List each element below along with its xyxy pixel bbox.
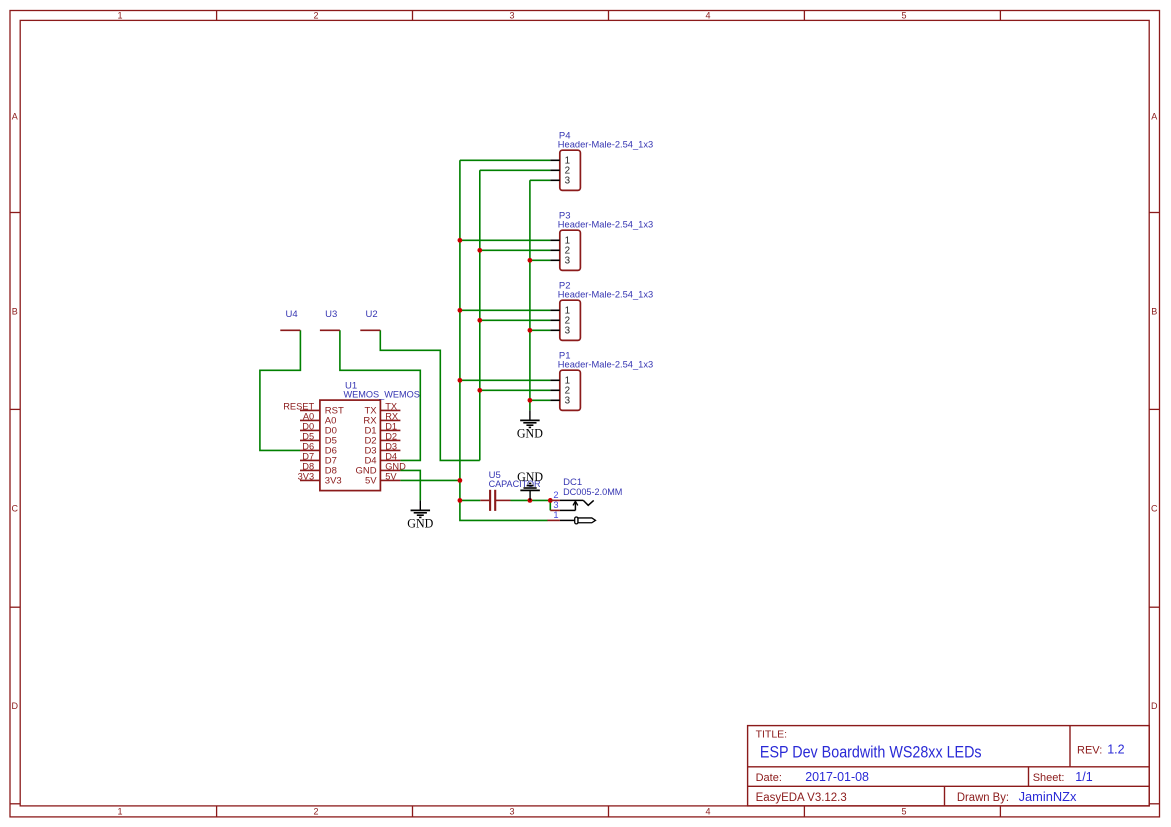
junction dot 12 — [528, 498, 533, 503]
wire DC1 pin3 to pin2 net — [549, 500, 551, 510]
U1 right pin D1 — [364, 426, 400, 437]
junction dot 13 — [548, 498, 553, 503]
connector P3 Header-Male-2.54_1x3 — [550, 230, 580, 270]
wire P4 pin3 to GND rail — [530, 179, 550, 181]
svg-text:Sheet:: Sheet: — [1033, 772, 1065, 784]
svg-text:TX: TX — [385, 401, 397, 411]
svg-text:2: 2 — [313, 807, 318, 817]
DC jack DC1 DC005-2.0MM — [547, 500, 595, 524]
svg-text:D8: D8 — [302, 461, 314, 471]
title block Sheet: 1/1 — [1033, 770, 1093, 784]
svg-text:Header-Male-2.54_1x3: Header-Male-2.54_1x3 — [558, 360, 653, 371]
U1 left pin RST — [300, 406, 344, 417]
IC U1 WEMOS_WEMOS body — [320, 400, 381, 491]
wire U3 to U1 pin D4 — [340, 330, 420, 460]
P4 pin numbers 1 2 3 — [565, 156, 571, 187]
svg-text:Header-Male-2.54_1x3: Header-Male-2.54_1x3 — [558, 220, 653, 231]
wire data rail vertical (header pin2 bus) — [479, 170, 481, 460]
connector P1 Header-Male-2.54_1x3 — [550, 370, 580, 410]
svg-text:3V3: 3V3 — [298, 471, 315, 481]
junction dot 4 — [458, 308, 463, 313]
U1 right pin GND — [355, 466, 400, 477]
component U4 pin stub — [280, 329, 300, 331]
junction dot 10 — [458, 478, 463, 483]
svg-text:Header-Male-2.54_1x3: Header-Male-2.54_1x3 — [558, 290, 653, 301]
svg-text:U2: U2 — [366, 309, 378, 320]
wire capacitor left to 5V rail — [460, 499, 480, 501]
svg-text:1.2: 1.2 — [1107, 742, 1124, 756]
svg-text:1/1: 1/1 — [1075, 770, 1092, 784]
svg-text:TITLE:: TITLE: — [756, 729, 788, 741]
svg-text:D: D — [1151, 701, 1158, 711]
svg-text:D2: D2 — [385, 431, 397, 441]
svg-text:D0: D0 — [302, 421, 314, 431]
svg-text:D3: D3 — [385, 441, 397, 451]
svg-text:WEMOS_WEMOS: WEMOS_WEMOS — [344, 389, 420, 400]
component U2 pin stub — [360, 329, 380, 331]
component U3 pin stub — [320, 329, 340, 331]
svg-text:RESET: RESET — [283, 401, 314, 411]
svg-text:3: 3 — [565, 256, 571, 267]
svg-text:Date:: Date: — [756, 772, 782, 784]
U1 right pin 5V — [365, 476, 400, 487]
svg-text:3: 3 — [509, 11, 514, 21]
wire P3 pin1 to 5V rail — [460, 239, 550, 241]
svg-text:JaminNZx: JaminNZx — [1019, 790, 1078, 804]
svg-text:Drawn By:: Drawn By: — [957, 792, 1009, 804]
wire P4 pin2 to data rail — [480, 169, 551, 171]
svg-text:3: 3 — [565, 176, 571, 187]
svg-text:ESP Dev Boardwith WS28xx LEDs: ESP Dev Boardwith WS28xx LEDs — [760, 742, 982, 761]
wire P3 pin2 to data rail — [480, 249, 551, 251]
svg-text:A: A — [1151, 112, 1157, 122]
wire P2 pin1 to 5V rail — [460, 309, 550, 311]
title block Drawn By: JaminNZx — [957, 790, 1077, 804]
svg-text:4: 4 — [705, 807, 710, 817]
svg-text:B: B — [1151, 306, 1157, 316]
svg-text:3V3: 3V3 — [325, 476, 342, 487]
svg-text:1: 1 — [117, 11, 122, 21]
svg-text:4: 4 — [705, 11, 710, 21]
U1 right pin TX — [364, 406, 400, 417]
svg-text:U4: U4 — [286, 309, 298, 320]
ground flag GND flipped at capacitor/DC jack — [517, 470, 543, 500]
svg-text:A0: A0 — [303, 411, 314, 421]
wire 5V rail vertical — [460, 160, 548, 520]
U1 right pin D2 — [364, 436, 400, 447]
U1 right pin RX — [363, 416, 400, 427]
U1 right pin D4 — [364, 456, 400, 467]
U1 left pin 3V3 — [300, 476, 342, 487]
svg-text:3: 3 — [509, 807, 514, 817]
wire P1 pin3 to GND rail — [530, 399, 550, 401]
svg-text:GND: GND — [517, 427, 543, 441]
connector P2 Header-Male-2.54_1x3 — [550, 300, 580, 340]
U1 left pin D6 — [300, 446, 337, 457]
svg-text:A: A — [12, 112, 18, 122]
svg-text:D5: D5 — [302, 431, 314, 441]
svg-text:REV:: REV: — [1077, 744, 1102, 756]
svg-text:D7: D7 — [302, 451, 314, 461]
wire P2 pin2 to data rail — [480, 319, 551, 321]
U1 right pin D3 — [364, 446, 400, 457]
wire U4 to U1 pin D6 — [260, 330, 301, 450]
wire U1 5V pin to 5V rail — [400, 479, 460, 481]
svg-text:3: 3 — [565, 396, 571, 407]
P3 pin numbers 1 2 3 — [565, 236, 571, 267]
wire P1 pin2 to data rail — [480, 389, 551, 391]
svg-text:Header-Male-2.54_1x3: Header-Male-2.54_1x3 — [558, 140, 653, 151]
svg-text:5V: 5V — [365, 476, 377, 487]
svg-text:D4: D4 — [385, 451, 397, 461]
U1 left pin D0 — [300, 426, 337, 437]
svg-text:C: C — [12, 504, 19, 514]
wire P1 pin1 to 5V rail — [460, 379, 550, 381]
junction dot 7 — [458, 378, 463, 383]
svg-text:GND: GND — [407, 517, 433, 531]
capacitor U5 — [480, 490, 510, 511]
svg-text:C: C — [1151, 504, 1158, 514]
wire capacitor right to DC1 pin2 — [511, 499, 551, 501]
junction dot 9 — [528, 398, 533, 403]
svg-text:5: 5 — [901, 807, 906, 817]
svg-text:2017-01-08: 2017-01-08 — [805, 770, 869, 784]
svg-text:1: 1 — [553, 510, 558, 520]
P1 pin numbers 1 2 3 — [565, 376, 571, 407]
svg-text:2: 2 — [313, 11, 318, 21]
wire U2 to data rail — [380, 330, 480, 460]
svg-text:3: 3 — [565, 326, 571, 337]
connector P4 Header-Male-2.54_1x3 — [550, 150, 580, 190]
svg-text:RX: RX — [385, 411, 398, 421]
wire GND rail vertical (header pin3 bus) — [529, 180, 531, 410]
wire P4 pin1 to 5V rail — [460, 159, 550, 161]
svg-text:2: 2 — [553, 490, 558, 500]
svg-text:DC005-2.0MM: DC005-2.0MM — [563, 487, 622, 498]
ground flag GND below P1 header — [517, 410, 543, 440]
junction dot 8 — [477, 388, 482, 393]
svg-text:U3: U3 — [325, 309, 337, 320]
svg-text:GND: GND — [517, 470, 543, 484]
junction dot 1 — [458, 238, 463, 243]
title block — [748, 726, 1150, 806]
U1 left pin D5 — [300, 436, 337, 447]
svg-text:EasyEDA V3.12.3: EasyEDA V3.12.3 — [756, 792, 847, 804]
junction dot 6 — [528, 328, 533, 333]
svg-text:3: 3 — [553, 500, 558, 510]
title block REV: 1.2 — [1077, 742, 1125, 756]
U1 left pin A0 — [300, 416, 336, 427]
junction dot 3 — [528, 258, 533, 263]
wire U1 GND pin to ground flag — [400, 470, 420, 500]
svg-text:5: 5 — [901, 11, 906, 21]
svg-text:GND: GND — [385, 461, 406, 471]
svg-text:D: D — [12, 701, 19, 711]
junction dot 5 — [477, 318, 482, 323]
U1 left pin D7 — [300, 456, 337, 467]
ground flag GND for U1 GND pin — [407, 500, 433, 530]
wire P3 pin3 to GND rail — [530, 259, 550, 261]
junction dot 2 — [477, 248, 482, 253]
svg-text:D6: D6 — [302, 441, 314, 451]
svg-text:D1: D1 — [385, 421, 397, 431]
svg-text:B: B — [12, 306, 18, 316]
title block Date: 2017-01-08 — [756, 770, 869, 784]
wire P2 pin3 to GND rail — [530, 329, 550, 331]
U1 left pin D8 — [300, 466, 337, 477]
svg-text:5V: 5V — [385, 471, 397, 481]
svg-text:1: 1 — [117, 807, 122, 817]
P2 pin numbers 1 2 3 — [565, 306, 571, 337]
junction dot 11 — [458, 498, 463, 503]
